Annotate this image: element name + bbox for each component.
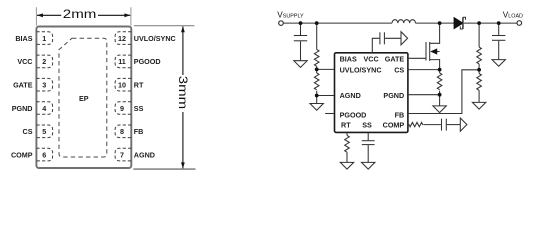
wire: RT pin down [346, 132, 348, 135]
resistor R_UVLO_top [314, 50, 319, 67]
wire: SS pin down [367, 132, 369, 140]
wire: VCC pin up to bypass cap [372, 38, 379, 53]
pin 7 pad [115, 148, 131, 161]
wire: AGND node to AGND pin [317, 95, 335, 97]
ground (FB divider) [472, 102, 485, 109]
wire: Q1 source down to CS node [430, 60, 440, 70]
wire: rail to output divider [478, 23, 480, 47]
svg-text:6: 6 [42, 150, 46, 159]
wire: R_T to ground [346, 152, 348, 162]
node: AGND junction [315, 94, 319, 98]
wire: rail to output cap [498, 23, 500, 35]
wire: divider bottom to ground [478, 90, 480, 102]
pin 6 pad [36, 148, 52, 161]
svg-text:UVLO/SYNC: UVLO/SYNC [340, 66, 382, 75]
wire: tap to UVLO/SYNC pin [317, 68, 335, 70]
pin 4 pad [36, 102, 52, 115]
node: PGND junction [438, 93, 442, 97]
transistor Q1 channel bar [429, 42, 431, 61]
svg-text:RT: RT [341, 120, 351, 129]
resistor R_UVLO_bottom [314, 73, 319, 90]
wire: AGND node to ground [316, 96, 318, 104]
terminal VSUPPLY [279, 21, 284, 26]
pin 2 pad [36, 55, 52, 68]
svg-text:RT: RT [134, 81, 144, 90]
wire: C_SS to ground [367, 145, 369, 162]
pin 10 pad [115, 78, 131, 91]
wire: PGND node to ground [439, 95, 441, 106]
capacitor C_COMP [441, 119, 443, 131]
wire: GATE pin to MOSFET gate [408, 57, 426, 59]
wire: input cap from rail [300, 23, 302, 35]
transistor Q1 body arrow [431, 49, 437, 54]
op IC U1 box [335, 53, 408, 133]
svg-text:COMP: COMP [11, 150, 33, 159]
pin 5 pad [36, 125, 52, 138]
pin 11 pad [115, 55, 131, 68]
svg-text:UVLO/SYNC: UVLO/SYNC [134, 34, 176, 43]
node: CS / Q1 source junction [438, 68, 442, 72]
svg-text:EP: EP [79, 94, 89, 103]
svg-text:FB: FB [395, 110, 405, 119]
wire: divider bottom to AGND node [316, 91, 318, 96]
wire: CS node to sense resistor [439, 70, 441, 73]
svg-text:GATE: GATE [13, 81, 33, 90]
transistor Q1 gate bar [425, 42, 427, 61]
wire: R_COMP to C_COMP [424, 124, 441, 126]
resistor R_FB_bottom [477, 74, 482, 91]
pin 8 pad [115, 125, 131, 138]
node: rail / UVLO divider junction [315, 21, 319, 25]
pin 3 pad [36, 78, 52, 91]
wire: divider tap [316, 66, 318, 69]
3mm dimension line with arrows [182, 26, 184, 75]
svg-text:BIAS: BIAS [340, 54, 357, 63]
terminal VLOAD [517, 21, 522, 26]
capacitor C_OUT [492, 35, 505, 37]
resistor R_T [345, 135, 350, 152]
wire: FB pin route to divider tap [408, 70, 479, 114]
svg-text:GATE: GATE [385, 54, 405, 63]
svg-text:1: 1 [42, 34, 46, 43]
wire: CS pin to CS node [408, 69, 440, 71]
wire: rail to UVLO divider [316, 23, 318, 49]
svg-text:AGND: AGND [340, 91, 361, 100]
ground (AGND) [310, 104, 323, 111]
wire: sense resistor to PGND node [439, 91, 441, 95]
resistor R_FB_top [477, 47, 482, 64]
capacitor C_SS [362, 140, 375, 142]
node: UVLO tap [315, 68, 319, 72]
wire: PGND pin to PGND node [408, 94, 440, 96]
svg-text:CS: CS [23, 127, 33, 136]
svg-text:3: 3 [42, 81, 46, 90]
svg-text:PGND: PGND [383, 91, 404, 100]
svg-text:CS: CS [394, 66, 404, 75]
ground (SS) [362, 162, 375, 169]
resistor R_COMP [408, 122, 423, 126]
wire: tap down [316, 69, 318, 73]
ground (VCC bypass, sideways) [401, 32, 408, 45]
svg-text:10: 10 [118, 81, 126, 90]
wire: input rail VSUPPLY to inductor [283, 22, 392, 24]
svg-text:2mm: 2mm [63, 8, 97, 21]
svg-text:VCC: VCC [17, 57, 32, 66]
wire: PGOOD stub [325, 113, 334, 115]
svg-text:PGOOD: PGOOD [134, 57, 161, 66]
pin 1 pad [36, 32, 52, 45]
node: VLOAD rail / FB divider junction [477, 21, 481, 25]
svg-text:5: 5 [42, 127, 46, 136]
node: switch node (rail / Q1 drain) [438, 21, 442, 25]
capacitor C_VCC [379, 32, 381, 44]
svg-text:7: 7 [120, 150, 124, 159]
svg-text:FB: FB [134, 127, 144, 136]
wire: input cap to ground [300, 41, 302, 60]
wire: diode cathode to VLOAD [464, 22, 517, 24]
inductor L1 [392, 20, 416, 23]
svg-text:SS: SS [362, 120, 372, 129]
resistor R_SENSE [437, 73, 442, 90]
svg-text:2: 2 [42, 57, 46, 66]
diode D1 (Schottky) [454, 18, 463, 29]
svg-text:COMP: COMP [383, 120, 405, 129]
wire: C_COMP to ground [447, 124, 460, 126]
svg-text:BIAS: BIAS [15, 34, 32, 43]
svg-text:PGND: PGND [12, 104, 33, 113]
ground (output cap) [492, 60, 505, 67]
svg-text:PGOOD: PGOOD [340, 110, 367, 119]
svg-text:8: 8 [120, 127, 124, 136]
3mm dimension extension lines [134, 25, 195, 27]
exposed pad EP outline [59, 38, 107, 157]
node: FB tap [477, 68, 481, 72]
ground (input cap) [294, 61, 307, 68]
svg-text:VCC: VCC [364, 54, 379, 63]
wire: Q1 body stub [437, 51, 440, 53]
wire: Q1 drain to switch node [430, 23, 440, 43]
node: VLOAD rail / C_OUT junction [497, 21, 501, 25]
pin 12 pad [115, 32, 131, 45]
node: rail / C_IN junction [299, 21, 303, 25]
2mm dimension extension lines [35, 7, 37, 25]
ground (RT) [340, 162, 353, 169]
ground (COMP, sideways) [460, 118, 467, 131]
package outline U1 (DFN) [36, 27, 131, 169]
wire: cap to ground [385, 37, 401, 39]
2mm dimension line with arrows [37, 14, 61, 16]
svg-text:4: 4 [42, 104, 46, 113]
svg-text:3mm: 3mm [176, 76, 189, 109]
svg-text:11: 11 [118, 57, 126, 66]
wire: inductor to diode anode (switch node) [416, 22, 455, 24]
wire: FB tap [478, 64, 480, 74]
pin 9 pad [115, 102, 131, 115]
capacitor C_IN [294, 35, 307, 37]
ground (PGND) [433, 106, 446, 113]
svg-text:9: 9 [120, 104, 124, 113]
svg-text:12: 12 [118, 34, 126, 43]
wire: output cap to ground [498, 41, 500, 60]
svg-text:AGND: AGND [134, 150, 155, 159]
svg-text:SS: SS [134, 104, 144, 113]
